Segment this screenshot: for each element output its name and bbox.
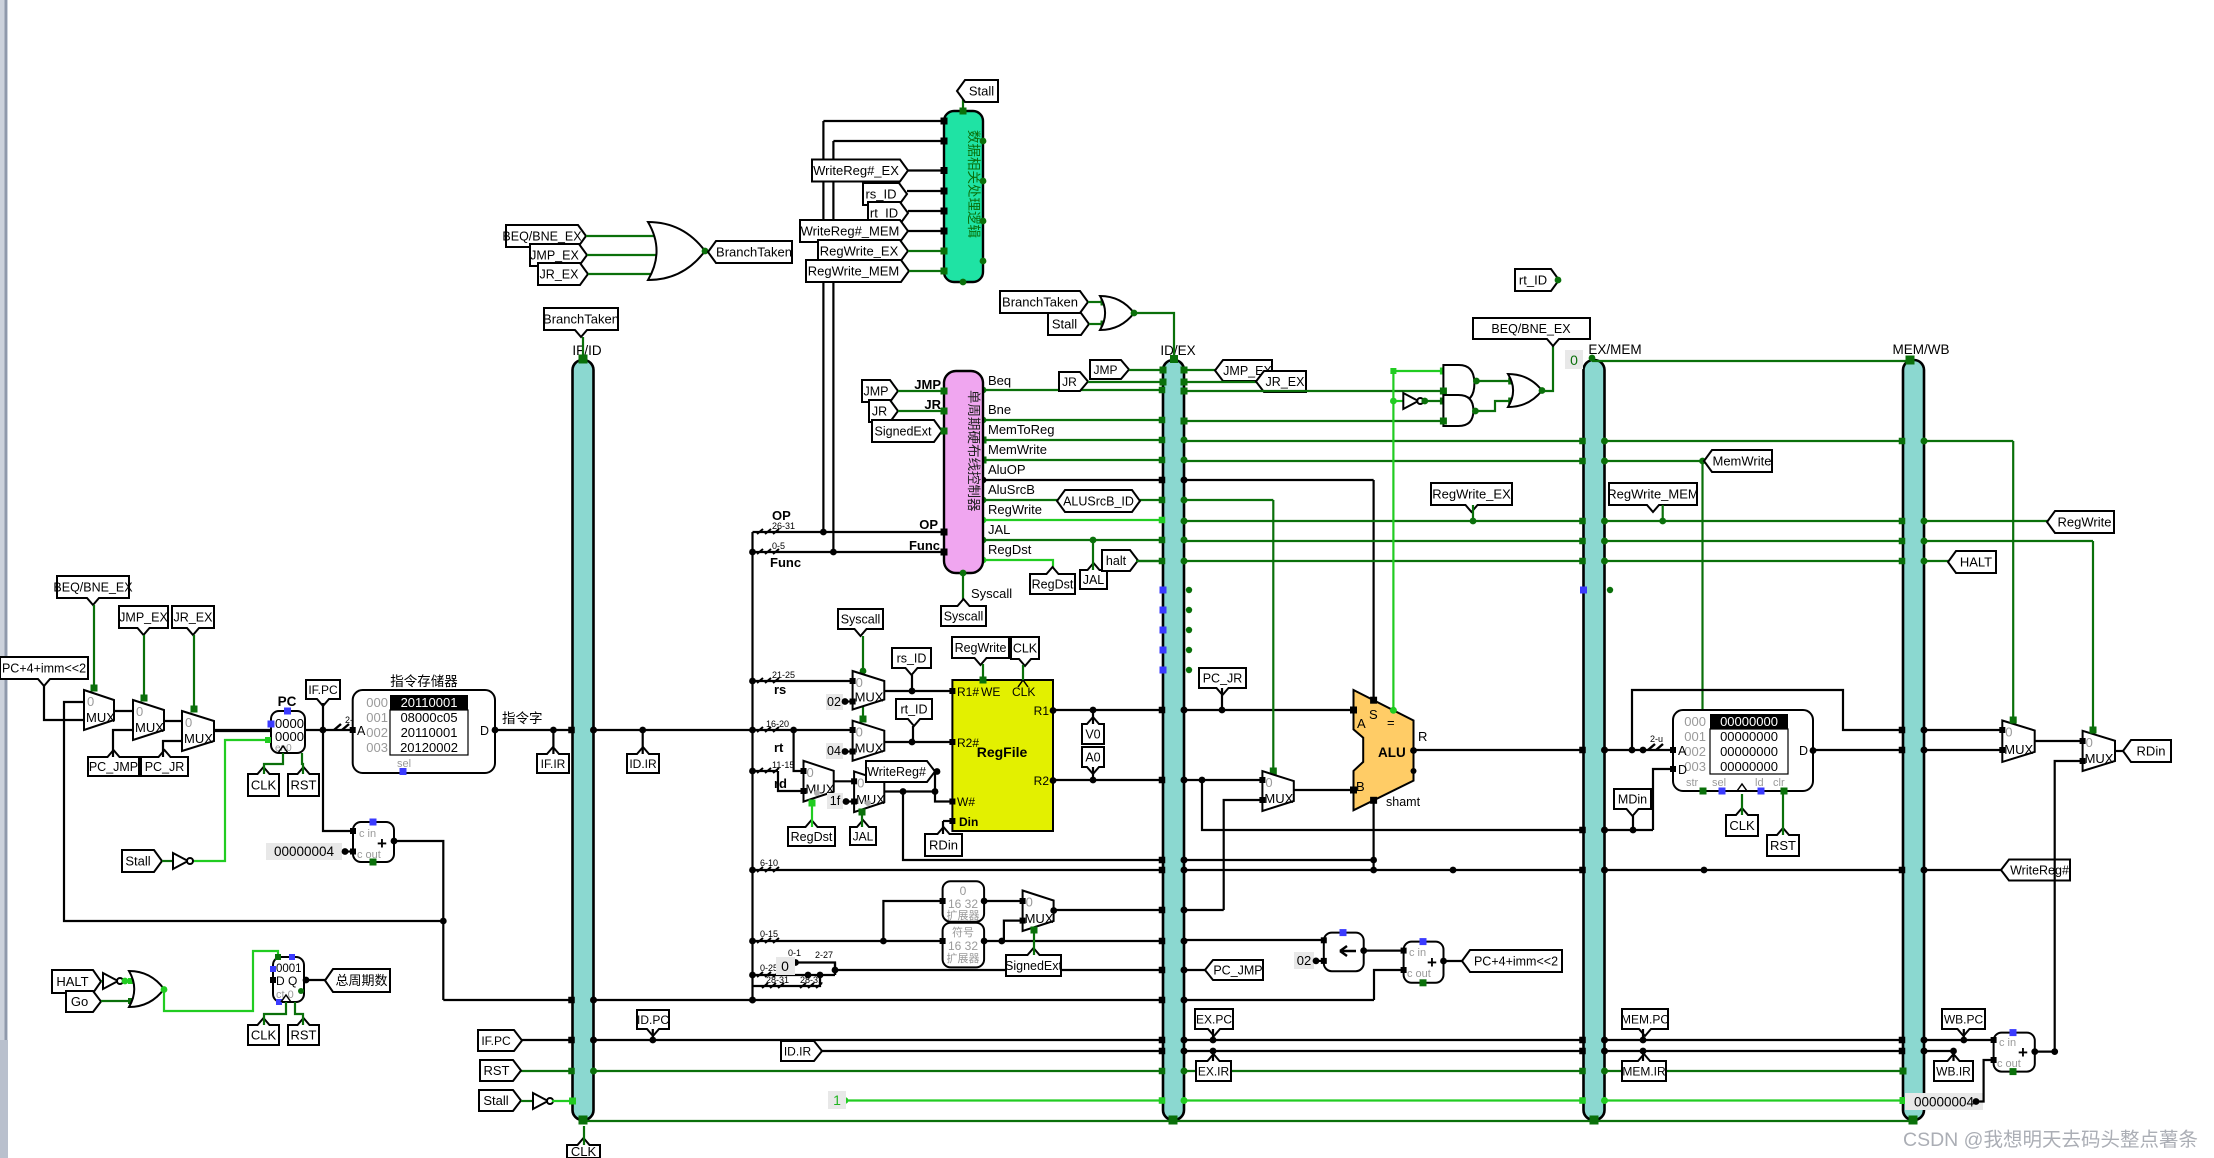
- not-gate U3 (zero invert): [1393, 400, 1403, 402]
- tunnel RegWrite_EX (mid): [1431, 483, 1512, 512]
- svg-text:总周期数: 总周期数: [335, 973, 387, 988]
- tunnel HALT (far right): [1948, 551, 1996, 573]
- svg-text:000: 000: [1684, 714, 1706, 729]
- svg-text:21-25: 21-25: [772, 670, 795, 680]
- not-gate U10 (halt invert): [103, 973, 118, 989]
- hazard unit input pins: [941, 118, 948, 125]
- tunnel SignedExt (ext select): [1006, 948, 1061, 976]
- svg-text:单周期硬布线控制器: 单周期硬布线控制器: [966, 390, 981, 512]
- wire M6 out to M7: [834, 780, 854, 782]
- svg-text:指令存储器: 指令存储器: [390, 674, 458, 689]
- svg-text:PC: PC: [278, 694, 297, 709]
- wire RST to PC: [302, 753, 303, 774]
- svg-text:rt_ID: rt_ID: [900, 703, 927, 717]
- mux M2 (jump select): [133, 700, 164, 740]
- svg-text:RST: RST: [291, 1028, 317, 1043]
- tunnel EX.IR: [1196, 1054, 1231, 1081]
- svg-text:c in: c in: [359, 828, 376, 840]
- wire store-data vertical and row to memory D: [1202, 780, 1584, 830]
- svg-text:002: 002: [366, 725, 388, 740]
- svg-text:00000004: 00000004: [1914, 1095, 1975, 1110]
- svg-text:RegWrite: RegWrite: [955, 641, 1007, 655]
- tunnel RegWrite_MEM (hazard input): [806, 260, 909, 282]
- wire BEQ/BNE_EX select vertical: [93, 605, 95, 690]
- register file RegFile: [952, 680, 1053, 831]
- pipeline register bar EX/MEM: [1584, 360, 1605, 1120]
- wire mux M1 out to M2: [114, 710, 133, 712]
- svg-text:02: 02: [827, 695, 841, 709]
- mux M6 (RegDst select): [804, 761, 834, 802]
- tunnel Stall (hazard output): [957, 80, 998, 102]
- wire shifter to adder2: [1364, 949, 1404, 951]
- wire BranchTaken to flush OR: [1088, 301, 1104, 303]
- tunnel RegDst (mid): [1030, 567, 1075, 594]
- svg-text:BEQ/BNE_EX: BEQ/BNE_EX: [1491, 322, 1571, 336]
- splitter 6-10 shamt row: [753, 869, 1164, 871]
- svg-text:16 32: 16 32: [948, 897, 978, 911]
- svg-text:CLK: CLK: [1012, 685, 1035, 699]
- wire BEQ/BNE_EX to OR input: [586, 235, 660, 237]
- wire ALU result to EX/MEM: [1414, 749, 1584, 751]
- svg-text:RegWrite: RegWrite: [988, 502, 1042, 517]
- svg-text:0: 0: [136, 704, 143, 719]
- svg-text:PC_JMP: PC_JMP: [1213, 964, 1262, 978]
- constant 04 (rt mux): [826, 743, 843, 759]
- tunnel ID.PC: [637, 1010, 669, 1036]
- svg-text:RegWrite_EX: RegWrite_EX: [1432, 487, 1511, 502]
- svg-text:RST: RST: [1770, 838, 1796, 853]
- wire RST to counter: [295, 1002, 303, 1025]
- svg-text:Syscall: Syscall: [841, 613, 881, 627]
- mux M11 (JAL writeback): [2083, 731, 2115, 771]
- svg-text:D: D: [1799, 744, 1808, 758]
- svg-text:MUX: MUX: [135, 720, 164, 735]
- tunnel Syscall (mux select): [838, 609, 883, 636]
- tunnel rs_ID (above R1#): [892, 648, 931, 675]
- tunnel RST (PC): [288, 767, 319, 796]
- tunnel JAL (mux select): [850, 820, 876, 845]
- counter 总周期数计数器: [273, 957, 304, 1002]
- svg-text:AluSrcB: AluSrcB: [988, 482, 1035, 497]
- svg-text:W#: W#: [957, 795, 975, 809]
- or-gate U2 flush: [1100, 296, 1134, 330]
- wire WB PC+4 vertical to M11: [2035, 761, 2083, 1052]
- svg-text:halt: halt: [1106, 554, 1127, 568]
- svg-text:6-10: 6-10: [760, 858, 778, 868]
- svg-text:JR_EX: JR_EX: [1266, 375, 1306, 389]
- instruction memory 指令存储器: [353, 690, 495, 773]
- tunnel WriteReg# (WB): [2001, 860, 2070, 881]
- svg-text:RegDst: RegDst: [1032, 578, 1074, 592]
- wire JR_EX to OR input: [588, 273, 660, 275]
- tunnel JR (to ID/EX): [1059, 372, 1088, 391]
- svg-text:0-15: 0-15: [760, 929, 778, 939]
- tunnel V0: [1082, 717, 1104, 744]
- svg-text:BEQ/BNE_EX: BEQ/BNE_EX: [502, 230, 582, 244]
- svg-text:00000000: 00000000: [1720, 729, 1778, 744]
- wire adder2 out to tunnel: [1444, 960, 1471, 962]
- svg-text:rt: rt: [774, 740, 784, 755]
- mux M5 (rt select): [853, 721, 885, 761]
- splitter OP 26-31: [757, 529, 779, 534]
- svg-text:0: 0: [2005, 725, 2012, 740]
- svg-text:+: +: [2018, 1043, 2028, 1062]
- svg-text:RDin: RDin: [2137, 744, 2166, 759]
- wire RegWrite_MEM stub: [1662, 505, 1664, 521]
- wire JAL row 540: [983, 539, 1163, 541]
- splitter 2-u marker (PC to imem): [334, 724, 349, 730]
- svg-text:20110001: 20110001: [401, 695, 458, 710]
- tunnel JAL (mid): [1080, 563, 1107, 589]
- svg-text:MUX: MUX: [184, 731, 213, 746]
- tunnel RegWrite_EX (hazard input): [818, 240, 908, 262]
- tunnel MemWrite (right): [1704, 450, 1772, 472]
- adder A1 (PC+4): [353, 822, 394, 862]
- tunnel WB.IR: [1934, 1054, 1973, 1081]
- wire sign extender output to ext mux: [1002, 940, 1004, 942]
- wire PC+4 feedback vertical: [64, 702, 443, 921]
- wire EX/MEM top row to MEM/WB top: [1592, 360, 1910, 362]
- wire RegWrite row 520: [983, 519, 1163, 521]
- svg-text:A: A: [357, 724, 366, 738]
- svg-text:IF.PC: IF.PC: [308, 683, 338, 697]
- svg-text:Syscall: Syscall: [944, 610, 984, 624]
- wire control Syscall output: [962, 573, 964, 606]
- left scrollbar strip: [0, 0, 8, 1158]
- hazard unit side dots: [980, 138, 987, 145]
- wire jump-concat row 970: [835, 969, 1163, 971]
- wire instruction word row PC to memories: [214, 729, 352, 731]
- svg-text:0: 0: [960, 884, 967, 898]
- svg-text:OP: OP: [772, 508, 791, 523]
- wire WriteReg# row 870 across: [1184, 869, 1584, 871]
- svg-text:0-1: 0-1: [788, 948, 801, 958]
- svg-text:PC_JR: PC_JR: [1203, 672, 1243, 686]
- svg-text:ALU: ALU: [1378, 745, 1406, 760]
- svg-text:CSDN @我想明天去码头整点薯条: CSDN @我想明天去码头整点薯条: [1903, 1129, 2198, 1151]
- tunnel PC_JMP (right of ID/EX): [1205, 960, 1263, 980]
- wire Beq row control to ID/EX: [983, 389, 1163, 391]
- svg-text:RegDst: RegDst: [988, 542, 1032, 557]
- svg-text:ld: ld: [1755, 777, 1764, 789]
- svg-text:R: R: [1418, 729, 1427, 744]
- tunnel CLK (PC): [248, 767, 279, 796]
- tunnel RegWrite (far right): [2047, 511, 2114, 533]
- or-gate U1 BranchTaken: [648, 222, 705, 280]
- svg-text:04: 04: [827, 744, 841, 758]
- svg-text:RegFile: RegFile: [977, 744, 1028, 760]
- wire MemWrite vertical to data memory WE: [1701, 461, 1703, 710]
- svg-text:0: 0: [1570, 352, 1578, 368]
- svg-text:0: 0: [1265, 775, 1272, 790]
- svg-text:R2#: R2#: [957, 736, 979, 750]
- wire MemWrite row 460: [983, 459, 1163, 461]
- svg-text:rs_ID: rs_ID: [865, 187, 896, 202]
- wire AND1 out to OR3: [1474, 380, 1511, 382]
- wire Stall to flush OR: [1089, 323, 1104, 325]
- tunnel WriteReg#_MEM (hazard input): [800, 220, 908, 242]
- tunnel CLK (RAM): [1726, 808, 1758, 836]
- svg-text:RDin: RDin: [929, 838, 958, 853]
- svg-text:JR: JR: [872, 405, 887, 419]
- svg-text:003: 003: [1684, 759, 1706, 774]
- svg-text:MUX: MUX: [2004, 742, 2033, 757]
- wire RST row 1071: [514, 1070, 573, 1072]
- wire JMP_EX row right of ID/EX: [1184, 369, 1215, 371]
- tunnel JMP_EX (to OR gate): [530, 244, 587, 266]
- tunnel WriteReg#_EX (hazard input): [812, 160, 908, 182]
- zero extender 0 16 32 扩展器: [943, 881, 985, 922]
- svg-text:D: D: [1678, 763, 1687, 777]
- svg-text:000: 000: [366, 695, 388, 710]
- wire Bne row control to ID/EX: [983, 419, 1163, 421]
- svg-text:rs_ID: rs_ID: [897, 652, 927, 666]
- tunnel CLK (regfile): [1011, 637, 1039, 666]
- or-gate U11 (count enable): [129, 971, 164, 1007]
- tunnel RST (bottom left): [480, 1060, 521, 1081]
- svg-text:0: 0: [807, 765, 814, 780]
- tunnel JMP_EX (right of ID/EX): [1215, 360, 1272, 381]
- svg-text:MUX: MUX: [1025, 911, 1054, 926]
- and-gate U4 (beq taken): [1443, 365, 1474, 402]
- svg-text:JMP: JMP: [1094, 363, 1118, 377]
- svg-text:A: A: [1357, 716, 1366, 731]
- not-gate U8 (stall invert 2): [533, 1093, 548, 1109]
- wire IF.PC row 1040: [514, 1039, 573, 1041]
- tunnel EX.PC: [1195, 1009, 1233, 1036]
- tunnel JR_EX (to OR gate): [538, 263, 588, 285]
- wire AluSrcB row 500: [983, 499, 1062, 501]
- floating pin markers on EX/MEM: [1580, 587, 1587, 594]
- wire constant-1 row 1101: [845, 1099, 1163, 1101]
- svg-text:MUX: MUX: [855, 690, 884, 705]
- floating pin markers on ID/EX: [1160, 587, 1167, 594]
- svg-text:0-5: 0-5: [772, 541, 785, 551]
- svg-text:PC+4+imm<<2: PC+4+imm<<2: [2, 662, 86, 676]
- tunnel MDin: [1614, 789, 1651, 816]
- wire SignedExt select stub: [1033, 931, 1035, 955]
- svg-text:ID.PC: ID.PC: [637, 1013, 669, 1027]
- wire ALU-B mux second input from immediate: [1224, 800, 1263, 910]
- data memory RAM: [1673, 710, 1813, 791]
- svg-text:扩展器: 扩展器: [947, 908, 980, 922]
- svg-text:001: 001: [366, 710, 388, 725]
- tunnel BEQ/BNE_EX (to OR gate): [506, 225, 586, 247]
- tunnel CLK (counter): [248, 1018, 279, 1045]
- wire PC_JMP to mux M2: [113, 730, 133, 757]
- wire PC_JR to mux M3: [163, 741, 182, 757]
- wire MDin stub: [1632, 816, 1634, 830]
- tunnel PC_JMP (below mux): [88, 750, 139, 776]
- splitter rs 21-25: [753, 680, 852, 682]
- svg-text:ALUSrcB_ID: ALUSrcB_ID: [1063, 495, 1134, 509]
- svg-text:Bne: Bne: [988, 402, 1011, 417]
- wire WriteReg# mux output net: [884, 790, 935, 792]
- wire AluOP row 480: [983, 479, 1163, 481]
- wire RAM D output to MEM/WB: [1813, 749, 1903, 751]
- svg-text:1f: 1f: [830, 794, 841, 808]
- wire RegDst select bright: [811, 802, 813, 827]
- tunnel ID.IR (after IF/ID): [627, 747, 659, 773]
- tunnel WriteReg# (regfile): [866, 761, 935, 782]
- svg-text:R2: R2: [1034, 774, 1050, 788]
- svg-text:RegWrite_MEM: RegWrite_MEM: [808, 264, 900, 279]
- wire row rs mux output to R1#: [884, 690, 952, 692]
- svg-text:Din: Din: [959, 815, 978, 829]
- tunnel Stall (PC enable): [122, 850, 162, 872]
- tunnel SignedExt (control input): [872, 420, 942, 442]
- register PC: [271, 711, 305, 753]
- wire HALT to NOT: [101, 980, 103, 982]
- wire row OP bus to control and hazard verticals: [753, 531, 945, 533]
- sign extender 符号 16 32 扩展器: [943, 923, 985, 968]
- control unit 单周期硬布线控制器: [944, 371, 983, 573]
- wire JR_EX select vertical: [193, 635, 195, 711]
- and-gate U5 (bne taken): [1443, 395, 1473, 426]
- tunnel 总周期数: [325, 969, 390, 992]
- wire CLK row 1121 under bars: [583, 1120, 1913, 1122]
- tunnel BranchTaken (to flush OR): [1000, 291, 1088, 313]
- svg-text:JAL: JAL: [853, 829, 874, 843]
- tunnel Syscall (below control): [941, 599, 986, 626]
- svg-text:WriteReg#: WriteReg#: [867, 765, 926, 779]
- splitter rt 16-20: [757, 727, 779, 732]
- tunnel ALUSrcB_ID: [1057, 490, 1140, 512]
- svg-text:数据相关处理逻辑: 数据相关处理逻辑: [966, 130, 981, 238]
- wire AluSrcB select vertical to ALU-B mux: [1272, 500, 1274, 768]
- wire PC+4 row 1000: [443, 999, 572, 1001]
- svg-text:PC_JR: PC_JR: [145, 760, 185, 774]
- tunnel CLK (under IF/ID): [567, 1138, 600, 1158]
- tunnel Go: [66, 991, 101, 1012]
- tunnel ID.IR (emit row 1051): [781, 1041, 822, 1061]
- tunnel Stall (bottom left): [479, 1090, 521, 1111]
- splitter 2-u marker (mem addr): [1648, 744, 1663, 750]
- tunnel RegWrite_MEM (mid): [1609, 483, 1697, 512]
- tunnel A0: [1082, 747, 1104, 774]
- svg-text:JR_EX: JR_EX: [174, 611, 214, 625]
- svg-text:+: +: [377, 834, 387, 853]
- wire zero to AND1 top input: [1393, 370, 1443, 372]
- or-gate U6 (branch/jump taken): [1508, 374, 1542, 407]
- svg-text:PC_JMP: PC_JMP: [89, 760, 138, 774]
- svg-text:CLK: CLK: [571, 1144, 597, 1158]
- wire JAL select stub: [861, 812, 863, 827]
- svg-text:rt_ID: rt_ID: [1519, 273, 1547, 288]
- wire Go to OR4: [101, 1000, 133, 1002]
- svg-text:PC+4+imm<<2: PC+4+imm<<2: [1474, 955, 1558, 969]
- wire OR output to BranchTaken: [705, 251, 716, 253]
- wire instruction-field vertical: [751, 532, 753, 1000]
- svg-text:c in: c in: [1409, 947, 1426, 959]
- svg-text:EX/MEM: EX/MEM: [1588, 342, 1641, 357]
- svg-text:0: 0: [1026, 895, 1033, 910]
- wire ALU result bypass around memory: [1632, 690, 1903, 750]
- svg-text:Func: Func: [909, 538, 940, 553]
- wire mux M2 out to M3: [164, 720, 182, 722]
- tunnel BranchTaken (OR output): [708, 241, 792, 263]
- svg-text:Func: Func: [770, 555, 801, 570]
- svg-text:00000004: 00000004: [274, 844, 335, 859]
- svg-text:16 32: 16 32: [948, 939, 978, 953]
- wire RDin to Din: [943, 820, 952, 822]
- svg-text:1: 1: [833, 1092, 841, 1108]
- tunnel halt (mid): [1102, 550, 1138, 571]
- svg-text:B: B: [1356, 779, 1365, 794]
- splitter 0-25 row: [757, 972, 779, 977]
- svg-text:28-31: 28-31: [766, 975, 789, 985]
- svg-text:BEQ/BNE_EX: BEQ/BNE_EX: [53, 581, 133, 595]
- wire JMP_EX to OR input: [587, 254, 664, 256]
- svg-text:BranchTaken: BranchTaken: [716, 245, 792, 260]
- svg-text:MUX: MUX: [855, 741, 884, 756]
- wire JAL/PC+4 select vertical to WB mux2: [2092, 541, 2094, 728]
- tunnel JR_EX (PC select): [172, 606, 214, 635]
- svg-text:SignedExt: SignedExt: [875, 425, 933, 439]
- svg-text:HALT: HALT: [56, 974, 88, 989]
- tunnel rt_ID (above R2#): [896, 699, 932, 726]
- svg-text:JMP_EX: JMP_EX: [530, 249, 579, 263]
- tunnel Stall (to flush OR): [1048, 313, 1089, 335]
- wire zero extender input branch: [883, 901, 942, 941]
- tunnel rt_ID (hazard input): [868, 202, 908, 224]
- constant 1f (JAL mux): [827, 793, 843, 809]
- svg-text:JMP: JMP: [914, 377, 941, 392]
- not-gate U7 (stall invert): [173, 853, 188, 869]
- svg-text:001: 001: [1684, 729, 1706, 744]
- svg-text:08000c05: 08000c05: [400, 710, 457, 725]
- wire adder1 out to PC+4 net: [394, 841, 443, 1000]
- svg-text:D: D: [480, 724, 489, 738]
- svg-text:MEM.IR: MEM.IR: [1622, 1064, 1666, 1078]
- wire AluOP vertical to ALU S: [1372, 480, 1374, 700]
- svg-text:RST: RST: [291, 778, 317, 793]
- tunnel JMP (control input): [862, 380, 898, 402]
- svg-text:CLK: CLK: [1013, 642, 1038, 656]
- svg-text:MemWrite: MemWrite: [988, 442, 1047, 457]
- wire IF.PC stub: [322, 703, 324, 730]
- constant 0 (jump concat): [776, 957, 795, 975]
- tunnel PC+4+imm<<2 (EX out): [1462, 950, 1562, 972]
- tunnel JMP_EX (PC select): [119, 606, 168, 635]
- tunnel IF.PC (bottom left): [478, 1030, 522, 1051]
- mux M1 (branch target select): [84, 690, 114, 730]
- svg-text:Stall: Stall: [969, 84, 994, 99]
- svg-text:rs: rs: [774, 682, 786, 697]
- svg-text:str: str: [1686, 777, 1699, 789]
- wire MemToReg row 440: [983, 439, 1163, 441]
- tunnel WB.PC: [1942, 1009, 1985, 1036]
- svg-text:MEM.PC: MEM.PC: [1621, 1012, 1669, 1026]
- wire 0-15 row into extenders: [753, 940, 985, 942]
- wire PC enable bright path: [192, 740, 271, 861]
- tunnel RST (RAM): [1767, 828, 1799, 856]
- wire JMP_EX select vertical: [143, 635, 145, 700]
- wire BranchTaken to IF/ID top: [582, 337, 584, 360]
- svg-text:00000000: 00000000: [1720, 714, 1778, 729]
- wire flush OR to ID/EX top: [1134, 313, 1174, 360]
- tunnel PC+4+imm<<2 (PC input): [0, 657, 88, 686]
- wire hazard Stall output: [960, 108, 967, 115]
- svg-text:0: 0: [87, 694, 94, 709]
- svg-text:0: 0: [856, 725, 863, 740]
- grey 0 at EX/MEM top: [1565, 350, 1583, 369]
- svg-text:JR: JR: [1062, 375, 1077, 389]
- splitter Func 0-5: [757, 549, 779, 554]
- wire zero extender output to ext mux: [984, 900, 1023, 902]
- wire shamt vertical: [1372, 800, 1374, 860]
- wire JR_EX row right of ID/EX: [1184, 381, 1256, 383]
